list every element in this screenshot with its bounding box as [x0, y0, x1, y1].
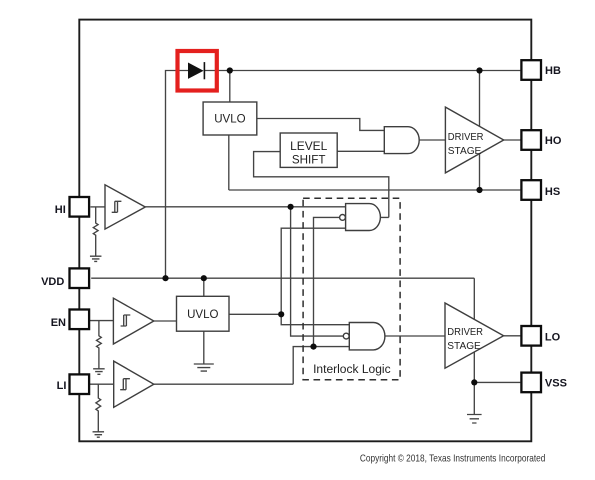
driver stage 2 (low side)	[445, 303, 504, 368]
pin LI	[70, 374, 90, 394]
wire HI pin to schmitt1	[91, 206, 106, 208]
and gate G3 (interlock bottom)	[343, 323, 385, 350]
node HS-driver1	[476, 187, 482, 193]
resistor R1 (HI pulldown)	[90, 207, 102, 262]
wire VDD branch down to UVLO-bottom	[203, 278, 205, 296]
wire schmitt1 output to AND2 top input (node at x=290.6)	[145, 206, 345, 208]
block UVLO (bottom, VDD)	[177, 296, 230, 331]
svg-text:EN: EN	[51, 317, 66, 329]
block UVLO (top, HB-HS)	[203, 102, 257, 135]
svg-text:UVLO: UVLO	[187, 307, 218, 321]
resistor R3 (LI pulldown)	[93, 384, 105, 437]
wire VDD net	[91, 277, 474, 279]
wire AND1 output to driver1	[419, 139, 445, 141]
node VDD-UVLO bottom	[201, 275, 207, 281]
svg-text:DRIVER: DRIVER	[448, 132, 484, 143]
node VDD-diode riser	[162, 275, 168, 281]
svg-text:Copyright © 2018, Texas Instru: Copyright © 2018, Texas Instruments Inco…	[360, 452, 546, 464]
schmitt buffer U2 (EN)	[113, 298, 153, 344]
wire VDD down through driver2 to VSS node (hidden behind triangle)	[473, 278, 475, 382]
wire schmitt3 output to AND3 bottom input	[154, 347, 349, 385]
svg-text:SHIFT: SHIFT	[292, 152, 326, 166]
svg-text:HO: HO	[545, 135, 562, 147]
wire UVLO-top bottom to HS wire	[228, 135, 230, 190]
node VSS-driver2	[471, 379, 477, 385]
svg-text:DRIVER: DRIVER	[447, 327, 483, 338]
pin VSS	[521, 373, 541, 393]
svg-text:STAGE: STAGE	[447, 341, 481, 352]
and gate G1 (HO enable)	[384, 127, 419, 154]
wire driver1 output to HO pin	[504, 139, 521, 141]
block LEVEL SHIFT	[280, 133, 337, 167]
svg-text:LO: LO	[545, 332, 561, 344]
node HI branch	[288, 204, 294, 210]
wire schmitt2 output to UVLO-bottom	[154, 320, 177, 322]
wire UVLO-bottom output node	[229, 313, 281, 315]
wire UVLO out up to AND2 bottom input	[281, 228, 345, 314]
wire UVLO-top to HB wire	[229, 71, 231, 103]
ground (VSS / driver2)	[467, 382, 482, 423]
wire HB net: diode cathode to HB pin	[204, 70, 520, 72]
red highlight box around diode	[178, 51, 217, 91]
node LI branch	[310, 344, 316, 350]
wire HI branch down to AND3 inverting input	[291, 207, 344, 336]
wire VSS net	[474, 381, 520, 383]
svg-text:HI: HI	[55, 204, 66, 216]
schmitt buffer U3 (LI)	[114, 361, 154, 407]
IC boundary border	[79, 20, 531, 442]
pin HS	[521, 180, 541, 200]
ground (UVLO bottom)	[194, 331, 214, 371]
pin LO	[521, 326, 541, 346]
wire UVLO out down to AND3 top input	[281, 314, 349, 324]
and gate G2 (interlock top)	[340, 204, 381, 231]
svg-text:STAGE: STAGE	[448, 146, 482, 157]
resistor R2 (EN pulldown)	[93, 321, 105, 375]
wire AND2 inverting input from LI riser	[314, 217, 340, 346]
pin HI	[70, 197, 90, 217]
svg-text:VSS: VSS	[545, 378, 567, 390]
wire LI pin to schmitt3	[90, 383, 114, 385]
wire LEVEL SHIFT output to AND1 bottom input	[337, 150, 384, 152]
pin HB	[521, 60, 541, 80]
wire HS net	[229, 189, 521, 191]
dashed interlock logic box	[303, 198, 400, 379]
wire EN pin to schmitt2	[90, 320, 113, 322]
node HB-driver1	[476, 67, 482, 73]
svg-text:Interlock Logic: Interlock Logic	[313, 362, 391, 376]
schmitt buffer U1 (HI)	[105, 185, 145, 229]
svg-text:LI: LI	[57, 380, 67, 392]
driver stage 1 (high side)	[445, 107, 503, 173]
pin EN	[70, 310, 90, 330]
pin HO	[521, 130, 541, 150]
wire driver2 output to LO pin	[504, 335, 521, 337]
svg-text:VDD: VDD	[41, 276, 64, 288]
diode D1 (bootstrap)	[188, 62, 204, 79]
wire UVLO-top output to AND1 top input	[257, 119, 384, 131]
wire HB net: diode riser from VDD node up and to diode anode	[166, 71, 189, 279]
svg-text:HB: HB	[545, 65, 561, 77]
svg-text:HS: HS	[545, 186, 560, 198]
node UVLO-bottom output	[278, 311, 284, 317]
svg-text:UVLO: UVLO	[214, 112, 245, 126]
svg-text:LEVEL: LEVEL	[290, 139, 328, 153]
wire HB to HS through driver1 (hidden behind triangle)	[479, 71, 481, 191]
node diode-UVLO top	[227, 67, 233, 73]
pin VDD	[70, 268, 90, 288]
wire AND2 output to LEVEL SHIFT input	[254, 152, 389, 218]
wire AND3 output to driver2	[385, 335, 445, 337]
